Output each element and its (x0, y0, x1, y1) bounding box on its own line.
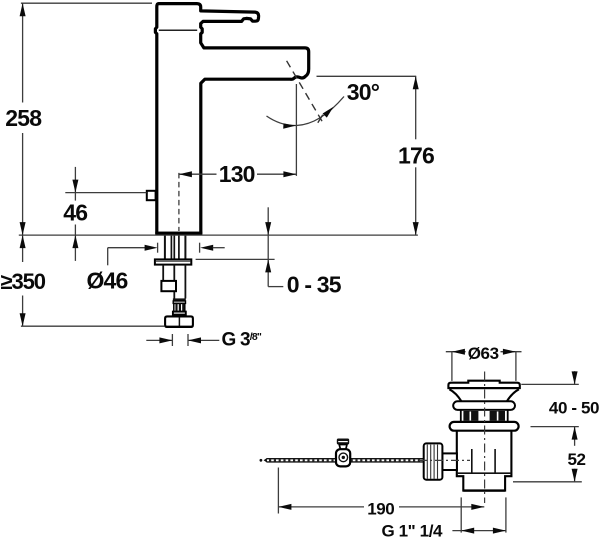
dim 176 arrow up (413, 76, 419, 89)
dim G1-1/4 line (452, 530, 506, 532)
hose below flange right (184, 265, 186, 299)
dim 40-50 upper arrow line (574, 371, 576, 384)
tailpipe bottom edge (463, 489, 505, 491)
arc tick at dashed axis (318, 115, 323, 123)
dim G1-1/4 arrow right (493, 528, 506, 534)
body inner tube left (471, 449, 473, 473)
dim 52 arrow down (572, 469, 578, 482)
svg-text:40 - 50: 40 - 50 (549, 398, 599, 417)
dim 190 arrow left (278, 504, 291, 510)
thread bar 2 (179, 304, 181, 312)
dim 258 line lower (22, 133, 24, 235)
rod pointed tip (264, 458, 267, 463)
stud collar lower (173, 312, 186, 315)
dim 40-50 arrow down (572, 371, 578, 384)
G1-1/4 extension right (505, 497, 507, 532)
dim 0-35 vertical line (267, 207, 269, 286)
washer top inner line (156, 260, 191, 262)
dim 0-35 leader foot (268, 286, 283, 288)
supply hose line 2 (173, 235, 175, 259)
mounting plane extension line (19, 234, 418, 236)
dim 176 line upper (415, 76, 417, 139)
thread bar 1 (175, 304, 177, 312)
pop-up rod top line (267, 458, 424, 460)
spout outlet centerline (295, 84, 297, 176)
plug neck left (449, 389, 461, 401)
svg-text:46: 46 (63, 200, 87, 226)
hose below flange left (162, 265, 164, 281)
faucet body outline (155, 4, 308, 234)
thread bar 3 (182, 304, 184, 312)
dim G3/8 tick left (171, 334, 173, 346)
waste body outline (457, 431, 512, 491)
svg-text:52: 52 (567, 450, 585, 469)
rod clamp body (336, 449, 350, 466)
stud collar white band (173, 301, 185, 303)
rod end extension line (277, 468, 279, 514)
dim G3/8 arrow left (188, 337, 201, 343)
dia46 arrow left (200, 245, 213, 251)
clamp pin dot (342, 456, 345, 459)
dim 52 lower line (574, 469, 576, 482)
dim 46 line upper (74, 167, 76, 201)
dim 40-50 lower arrow line (574, 427, 576, 446)
plug ridge band (453, 401, 515, 410)
nut knurl line 3 (433, 445, 435, 479)
dia46 tick right (199, 243, 201, 253)
dim >=350 arrow down (20, 313, 26, 326)
drain coupling nut (424, 443, 443, 479)
svg-text:Ø63: Ø63 (468, 344, 499, 363)
dim 130 arrow right (283, 171, 296, 177)
rod hatch texture (269, 459, 422, 461)
dim G3/8 arrow right (159, 337, 172, 343)
faucet axis dashed centerline (178, 173, 180, 231)
threaded stud body (174, 303, 185, 311)
svg-text:≥350: ≥350 (1, 269, 46, 294)
dia46 leader horizontal (108, 247, 145, 249)
slot slit left (469, 412, 471, 421)
dim 176 line lower (415, 167, 417, 235)
dim 40-50 arrow up (572, 427, 578, 440)
dim 46 arrow up (72, 235, 78, 248)
shank tube right line (184, 235, 186, 259)
dim 190 line right (399, 506, 484, 508)
drain centerline dash-dot (484, 372, 486, 504)
stud collar upper (173, 298, 186, 301)
clamp hole (339, 453, 348, 462)
dim 176 arrow down (413, 222, 419, 235)
dim G3/8 tick right (187, 334, 189, 346)
extension line at spout outlet (317, 75, 417, 77)
extension line cap underside (521, 383, 579, 385)
barrel slot left (463, 411, 478, 421)
dim >=350 line lower (22, 296, 24, 327)
body inner tube right (494, 449, 496, 473)
nut center slot (178, 317, 180, 326)
faucet deck bottom edge (155, 232, 202, 236)
rod tip dot (260, 459, 263, 462)
mounting nut (165, 316, 193, 327)
cap underside line (448, 387, 519, 389)
dim 130 line left (179, 173, 217, 175)
pop-up rod bottom line (267, 461, 424, 463)
clearance line below faucet (21, 325, 164, 327)
dia63 extension left (451, 352, 453, 381)
svg-text:G 1" 1/4: G 1" 1/4 (381, 522, 443, 539)
plug neck right (507, 389, 519, 401)
dim G1-1/4 arrow left (461, 528, 474, 534)
dia46 arrow right (145, 245, 158, 251)
top extension line at faucet top (21, 2, 152, 4)
dia46 leader vertical (107, 248, 109, 266)
arc arrowhead left (283, 123, 296, 128)
drain plug cap (448, 381, 519, 388)
hose below flange mid (173, 265, 175, 299)
slot slit right (497, 412, 499, 421)
nut serrated bottom edge (166, 326, 192, 328)
spout tilt dashed axis 30deg (287, 61, 323, 122)
supply hose line 1 (170, 235, 172, 259)
nut knurl line 2 (430, 445, 432, 479)
dim G3/8 line right (188, 339, 219, 341)
drain side port (442, 453, 457, 470)
rotation arc (267, 97, 345, 126)
dim 190 arrow right (471, 504, 484, 510)
dim 46 arrow down (72, 180, 78, 193)
nut knurl line 4 (437, 445, 439, 479)
svg-text:130: 130 (219, 161, 255, 187)
shank tube left line (164, 235, 166, 259)
dim 258 arrow down (20, 222, 26, 235)
dim dia63 tail left (446, 351, 466, 353)
dim dia63 tail right (501, 351, 522, 353)
hose clip on body left (147, 191, 156, 200)
dim dia63 arrow right (503, 349, 516, 355)
clamp screw head slot (338, 441, 348, 443)
dim >=350 arrow up (20, 235, 26, 248)
handle seam line (159, 29, 197, 31)
extension line at clip level (65, 192, 146, 194)
supply hose line 3 (178, 235, 180, 259)
svg-text:30°: 30° (347, 79, 380, 105)
dim 0-35 arrow down (265, 222, 271, 235)
dim 258 line upper (22, 3, 24, 102)
dim dia63 arrow left (452, 349, 465, 355)
mounting flange washer (155, 259, 191, 264)
dim 0-35 arrow up (265, 259, 271, 272)
dim G3/8 line left (146, 339, 172, 341)
extension line flange bottom (531, 426, 579, 428)
G1-1/4 extension left (460, 497, 462, 532)
dim 130 line right (257, 173, 296, 175)
clamp screw head (337, 439, 349, 445)
dia63 extension right (515, 352, 517, 381)
dim 190 line left (278, 506, 364, 508)
svg-text:Ø46: Ø46 (86, 268, 127, 294)
dim 46 line below (74, 235, 76, 261)
dia46 tail right (213, 247, 225, 249)
port axis dashed line (419, 459, 470, 461)
dim 130 arrow left (179, 171, 192, 177)
dia46 tick left (157, 243, 159, 253)
waste lower flange (450, 422, 519, 431)
dim >=350 line upper (22, 235, 24, 262)
nut knurl line 1 (426, 445, 428, 479)
svg-text:176: 176 (398, 142, 434, 168)
dim 258 arrow up (20, 3, 26, 16)
dim 46 line mid (74, 225, 76, 236)
barrel slot right (490, 411, 505, 421)
body inner step line (457, 472, 511, 474)
extension line tail top (513, 481, 582, 483)
svg-text:0 - 35: 0 - 35 (287, 272, 342, 298)
svg-text:190: 190 (367, 499, 394, 518)
clamp screw neck (339, 445, 347, 450)
svg-text:258: 258 (5, 105, 42, 131)
hose connector block (161, 281, 176, 291)
plug barrel (461, 410, 508, 422)
flange top extension line (196, 258, 275, 260)
arc arrowhead right (323, 107, 334, 118)
